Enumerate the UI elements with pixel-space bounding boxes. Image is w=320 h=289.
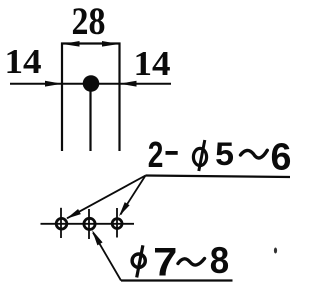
arrowhead at hole 2 (89, 229, 102, 246)
leader line to hole 1 (67, 176, 146, 219)
hole circle 2 (84, 218, 95, 229)
hole circle 3 (112, 219, 122, 229)
crosshair vertical hole 2 (88, 209, 90, 239)
arrowhead right of 28 dimension (102, 41, 119, 47)
hole circle 1 (56, 218, 67, 229)
svg-text:28: 28 (72, 0, 106, 43)
arrowhead pointing right at left extension (45, 81, 62, 87)
arrowhead at hole 1 (65, 209, 81, 221)
svg-text:14: 14 (133, 44, 170, 83)
dimension line 28 (61, 42, 121, 44)
label phi7~8 : wave dash (178, 259, 205, 266)
leader line to hole 2 (93, 233, 121, 281)
crosshair vertical hole 1 (60, 208, 62, 238)
label 2-phi5~6 : wave dash (241, 150, 268, 158)
arrowhead left of 28 dimension (63, 41, 80, 47)
extension line left (61, 43, 63, 152)
leader line to hole 3 (121, 176, 146, 215)
svg-text:7: 7 (153, 239, 177, 284)
arrowhead pointing left at right extension (120, 81, 137, 87)
label phi7~8 : phi symbol (132, 245, 145, 277)
svg-text:2: 2 (148, 135, 164, 175)
filled hole circle (top view) (83, 75, 100, 92)
front view horizontal line through holes (41, 223, 135, 225)
svg-text:5: 5 (215, 136, 234, 172)
leader underline for 2-phi5~6 (146, 176, 291, 178)
svg-text:6: 6 (271, 136, 292, 178)
label 2-phi5~6 : phi symbol (193, 140, 206, 171)
leader underline for phi7~8 (121, 279, 233, 281)
extension line right (118, 43, 120, 152)
svg-text:8: 8 (210, 239, 229, 281)
center line vertical below hole (89, 84, 91, 151)
label 2-phi5~6 : hyphen (166, 151, 178, 155)
svg-text:14: 14 (4, 42, 41, 81)
scan speck (274, 248, 277, 254)
crosshair vertical hole 3 (116, 208, 118, 238)
arrowhead at hole 3 (117, 202, 130, 218)
center line horizontal (10, 83, 171, 85)
